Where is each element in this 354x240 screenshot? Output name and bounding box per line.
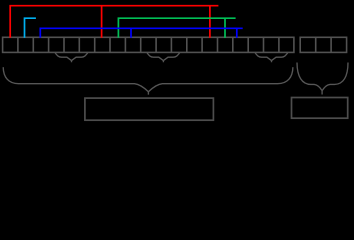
pointer line green: [118, 18, 235, 38]
large brace (whole main row): [3, 67, 293, 94]
bottom box 2: [292, 98, 348, 119]
small brace 2 (cells 10-12): [147, 53, 180, 62]
pointer line cyan: [25, 18, 36, 38]
small brace 1 (cells 4-6): [55, 53, 88, 62]
pointer line red: [10, 6, 218, 38]
pointer line blue: [40, 28, 242, 38]
cell borders: [18, 37, 279, 52]
small brace 3 (cells 17-19): [255, 53, 288, 62]
array right group (3 cells): [300, 37, 346, 52]
array main row (19 cells): [3, 37, 294, 52]
bottom box 1: [85, 98, 214, 120]
right brace (right group): [297, 63, 348, 95]
